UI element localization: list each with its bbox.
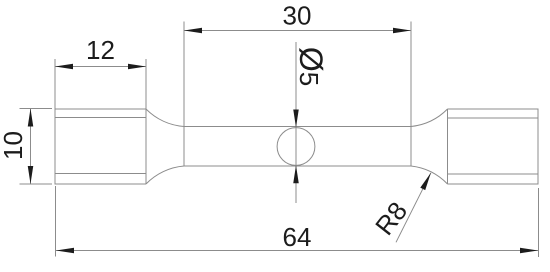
dim O5 leader line: [295, 42, 297, 203]
arrow dim64 right: [520, 248, 538, 254]
fillet top-left R8: [146, 109, 184, 127]
narrow section top edge: [184, 126, 411, 128]
arrow dim10 bottom: [28, 166, 34, 184]
left grip inner top edge: [55, 117, 146, 119]
arrow dim30 right: [393, 28, 411, 34]
right grip inner top edge: [448, 117, 539, 119]
narrow section bottom edge: [184, 165, 411, 167]
fillet top-right R8: [411, 109, 448, 127]
svg-text:30: 30: [283, 1, 312, 31]
dim 64 dimension line: [56, 250, 538, 252]
arrow dim12 left: [55, 64, 73, 70]
dim 12 left extension line: [54, 59, 56, 109]
fillet bottom-right R8: [411, 166, 448, 184]
dim 10 dimension line: [30, 109, 32, 185]
svg-text:R8: R8: [369, 196, 413, 241]
left grip inner bottom edge: [55, 173, 146, 175]
arrow dimR8: [420, 173, 431, 190]
svg-text:10: 10: [0, 131, 28, 160]
dim R8 leader line: [396, 173, 431, 243]
dim 30 dimension line: [184, 30, 411, 32]
dim 30 right extension line: [410, 22, 412, 167]
dim 30 left extension line: [183, 22, 185, 167]
arrow dimO5 top: [293, 110, 299, 128]
arrow dim12 right: [128, 64, 146, 70]
dim 64 right extension line: [538, 188, 540, 257]
dim 12 right extension line: [145, 59, 147, 109]
svg-text:64: 64: [283, 222, 312, 252]
hole circle O5: [277, 128, 315, 166]
arrow dim30 left: [184, 28, 202, 34]
right grip inner bottom edge: [448, 173, 539, 175]
dim 12 dimension line: [55, 66, 146, 68]
left grip outline: [55, 109, 146, 184]
right grip outline: [448, 109, 539, 184]
svg-text:Ø5: Ø5: [293, 47, 329, 86]
arrow dimO5 bottom: [293, 165, 299, 183]
arrow dim10 top: [28, 109, 34, 127]
dim 64 left extension line: [55, 186, 57, 257]
dim 10 bottom extension line: [20, 183, 53, 185]
svg-text:12: 12: [86, 35, 115, 65]
fillet bottom-left R8: [146, 166, 184, 184]
dim 10 top extension line: [20, 108, 53, 110]
arrow dim64 left: [56, 248, 74, 254]
